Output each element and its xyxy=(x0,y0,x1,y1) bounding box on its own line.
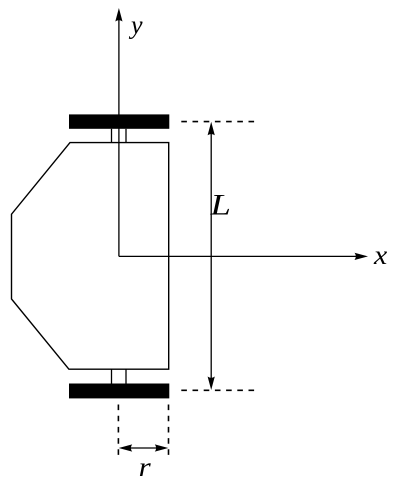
x axis line xyxy=(119,255,357,257)
left vertical dashed line xyxy=(117,405,119,457)
r dimension left arrowhead xyxy=(119,444,133,451)
top wheel xyxy=(69,114,169,128)
right vertical dashed line xyxy=(168,405,170,457)
bottom axle right line xyxy=(125,369,127,383)
svg-text:r: r xyxy=(139,453,152,483)
r dimension right arrowhead xyxy=(155,444,169,451)
svg-text:L: L xyxy=(209,188,230,221)
bottom dashed reference line xyxy=(181,389,254,391)
L dimension line xyxy=(210,132,212,380)
x axis arrowhead xyxy=(355,253,369,260)
bottom axle left line xyxy=(111,369,113,383)
y axis arrowhead xyxy=(115,8,122,22)
y axis line xyxy=(118,19,120,256)
top axle right line xyxy=(125,129,127,143)
svg-text:x: x xyxy=(373,241,388,270)
L dimension top arrowhead xyxy=(208,122,215,136)
top dashed reference line xyxy=(181,121,254,123)
robot body outline xyxy=(12,143,169,370)
L dimension bottom arrowhead xyxy=(208,377,215,391)
bottom wheel xyxy=(69,384,169,399)
r dimension line xyxy=(128,447,159,449)
svg-text:y: y xyxy=(128,11,143,40)
top axle left line xyxy=(111,129,113,143)
